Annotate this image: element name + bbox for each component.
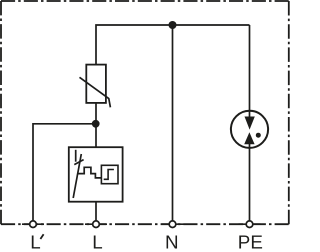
varistor body (86, 65, 106, 103)
wire L' branch (33, 124, 96, 224)
disconnector switch blade (73, 154, 81, 198)
wire box bottom to L terminal (95, 202, 97, 225)
monitoring block outline (101, 165, 118, 183)
device boundary top edge (dash-dot) (1, 0, 289, 2)
svg-text:N: N (165, 232, 179, 252)
svg-text:L: L (92, 232, 102, 252)
disconnector box outline (69, 147, 123, 202)
wire N column (172, 25, 174, 224)
node junction top bus / N (169, 21, 177, 29)
terminal L' (30, 221, 37, 228)
wire varistor bottom to disconnector box (95, 103, 97, 147)
spark gap top arrow (245, 117, 255, 130)
disconnector thermal tick (74, 160, 83, 165)
wire PE column lower (249, 144, 251, 224)
varistor diagonal stroke (80, 77, 111, 107)
spark gap gas dot (256, 133, 261, 138)
svg-text:PE: PE (238, 232, 263, 252)
wire PE column upper (249, 25, 251, 117)
node junction varistor / L' branch (92, 120, 100, 128)
wire top bus from varistor column to PE column (96, 25, 250, 65)
svg-text:L: L (30, 232, 40, 252)
device boundary left edge (dash-dot) (0, 1, 2, 224)
device boundary bottom edge / terminal line (dash-dot) (1, 223, 289, 225)
terminal L (93, 221, 100, 228)
terminal PE (246, 221, 253, 228)
disconnector step link (78, 167, 102, 178)
terminal N (169, 221, 176, 228)
disconnector fixed contact stub (75, 150, 77, 162)
label L' prime mark (40, 234, 43, 239)
monitoring block pulse icon (104, 170, 114, 180)
device boundary right edge (dash-dot) (288, 1, 290, 224)
spark gap circle (231, 111, 268, 148)
terminal line solid segments (22, 223, 261, 225)
spark gap bottom arrow (244, 132, 254, 144)
